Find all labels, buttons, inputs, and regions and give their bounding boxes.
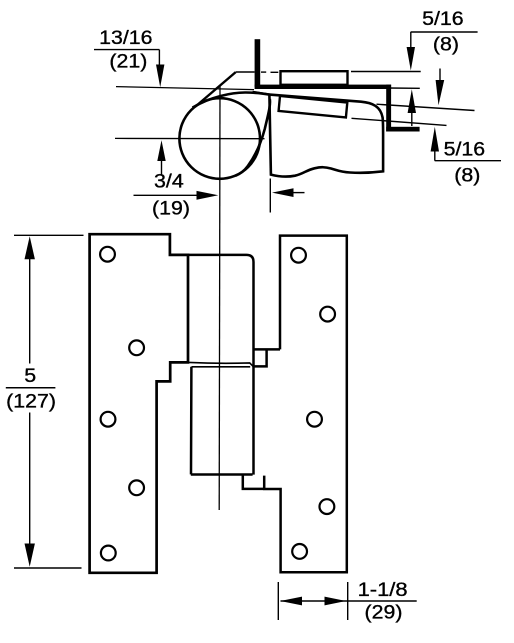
node E: door face extension line	[269, 179, 271, 213]
capacitor C11: screw hole right leaf 4	[320, 499, 335, 514]
node H: top 5/16 up arrow	[408, 89, 416, 126]
transistor Q1: frame stop thick bar	[255, 39, 261, 87]
op-amp U2: right hinge leaf (front view)	[243, 236, 347, 573]
node J: lower 5/16 up arrow and leader	[431, 127, 501, 161]
svg-text:(29): (29)	[365, 602, 403, 624]
node I: lower 5/16 down arrow	[436, 69, 445, 106]
wire: horizontal knuckle center line	[115, 137, 265, 139]
svg-text:(19): (19)	[152, 198, 190, 220]
capacitor C5: screw hole left leaf 3	[101, 412, 116, 427]
capacitor C8: screw hole right leaf 1	[291, 248, 306, 263]
svg-text:(8): (8)	[454, 165, 480, 187]
capacitor C4: screw hole left leaf 2	[129, 340, 144, 355]
capacitor C10: screw hole right leaf 3	[307, 412, 322, 427]
node B: 13/16 dimension leader and down arrow	[94, 50, 164, 88]
capacitor C6: screw hole left leaf 4	[129, 480, 144, 495]
node G: top 5/16 dimension leader	[407, 32, 478, 71]
capacitor C12: screw hole right leaf 5	[292, 544, 307, 559]
wire: upper tilted extension line L1	[377, 104, 475, 110]
svg-text:13/16: 13/16	[99, 27, 152, 49]
node L: height dimension line with arrows	[25, 236, 35, 567]
node K: height dimension extension lines	[14, 234, 84, 236]
svg-text:5/16: 5/16	[422, 8, 464, 30]
diode D1: door panel outline with break line	[269, 95, 383, 177]
svg-text:(8): (8)	[433, 34, 459, 56]
wire: vertical hinge center line	[218, 86, 221, 510]
node F: 3/4 dimension arrow left	[272, 188, 305, 197]
node A: frame face extension line (top view)	[116, 87, 254, 90]
node N: width dimension line with arrows	[280, 597, 417, 606]
node D: 3/4 dimension arrow right	[134, 191, 219, 200]
node C: 13/16 dimension up arrow	[157, 140, 165, 174]
transistor Q2: top knuckle barrel	[188, 255, 254, 475]
capacitor C3: screw hole left leaf 1	[100, 247, 115, 262]
wire: frame face thin line right of rabbet	[388, 87, 420, 89]
wire: diagonal frame leaf edge	[198, 72, 236, 104]
wire: frame rabbet thick vertical	[386, 85, 391, 132]
wire: door top line short extension left	[253, 92, 270, 95]
capacitor C1: hinge knuckle circle (top view)	[179, 98, 260, 179]
node O: fraction bar for 5/(127)	[6, 387, 56, 389]
wire: frame leaf top line with dashes	[236, 71, 421, 74]
transistor Q3: bottom knuckle barrel	[191, 367, 253, 475]
svg-text:(21): (21)	[109, 51, 147, 73]
resistor R1: frame hinge leaf (section rectangle)	[281, 71, 348, 85]
wire: knuckle bearing gap lens	[189, 362, 253, 366]
svg-text:5/16: 5/16	[444, 139, 486, 161]
wire: frame rabbet thick horizontal	[255, 85, 392, 89]
wire: frame soffit thick horizontal	[386, 127, 419, 132]
wire: door leaf top curve around knuckle	[193, 92, 270, 107]
svg-text:5: 5	[24, 365, 36, 387]
wire: lower tilted extension line L2	[352, 118, 447, 125]
svg-text:(127): (127)	[6, 391, 56, 413]
svg-text:1-1/8: 1-1/8	[358, 579, 408, 601]
svg-text:3/4: 3/4	[154, 171, 184, 193]
capacitor C7: screw hole left leaf 5	[101, 546, 116, 561]
wire: door edge S-curve around knuckle	[235, 99, 270, 176]
op-amp U1: left hinge leaf (front view)	[90, 234, 188, 573]
capacitor C2: door hinge leaf (tilted section rectangle)	[279, 96, 348, 118]
capacitor C9: screw hole right leaf 2	[320, 307, 335, 322]
node M: width dimension extension lines	[277, 582, 279, 620]
